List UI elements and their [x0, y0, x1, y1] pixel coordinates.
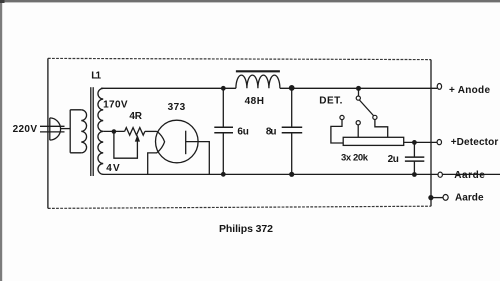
- svg-text:+ Anode: + Anode: [449, 85, 490, 96]
- svg-text:Aarde: Aarde: [455, 193, 484, 204]
- svg-text:Aarde: Aarde: [454, 170, 485, 181]
- svg-text:6u: 6u: [237, 126, 248, 137]
- svg-text:373: 373: [168, 102, 186, 113]
- svg-text:3x 20k: 3x 20k: [341, 152, 369, 163]
- svg-text:Philips 372: Philips 372: [219, 223, 273, 235]
- svg-text:48H: 48H: [245, 96, 264, 107]
- svg-text:4V: 4V: [106, 163, 120, 174]
- svg-text:+Detector: +Detector: [451, 137, 499, 148]
- svg-text:170V: 170V: [103, 99, 128, 110]
- svg-text:DET.: DET.: [319, 95, 342, 106]
- svg-text:L1: L1: [91, 70, 101, 81]
- svg-text:220V: 220V: [13, 124, 38, 135]
- svg-text:8u: 8u: [266, 126, 277, 137]
- svg-text:2u: 2u: [388, 154, 399, 165]
- svg-text:4R: 4R: [129, 111, 142, 122]
